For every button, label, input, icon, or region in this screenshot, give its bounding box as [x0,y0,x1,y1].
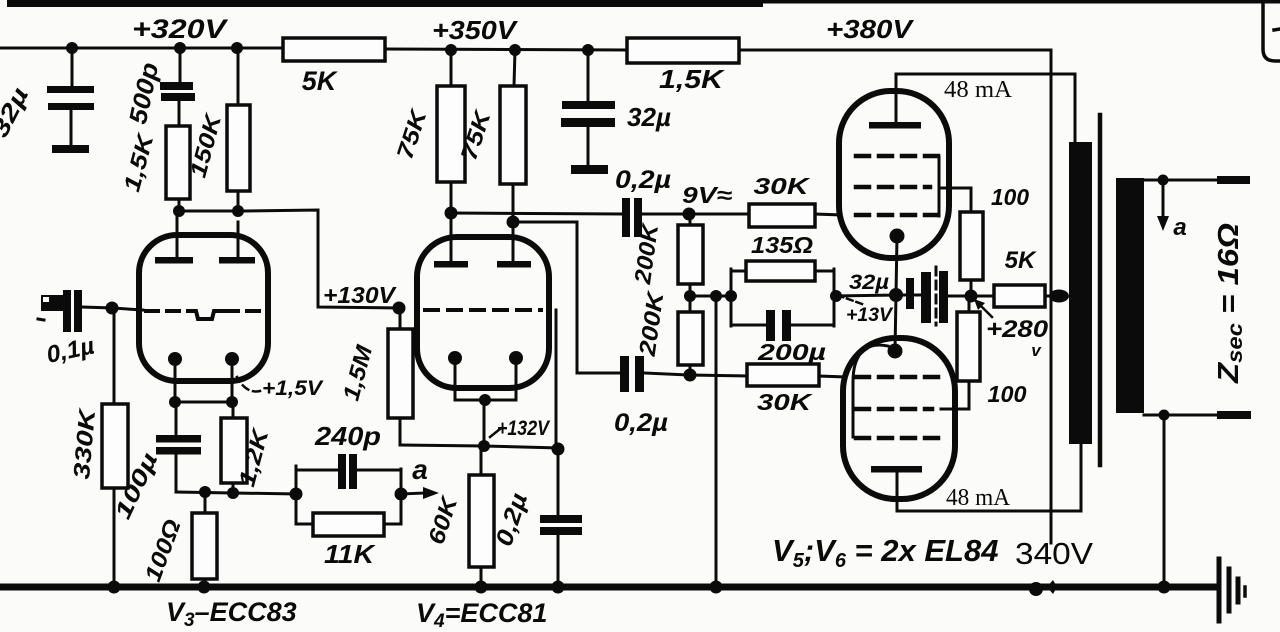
svg-text:100: 100 [988,381,1027,407]
transformer primary winding [1069,142,1092,444]
node dot mid c [725,290,737,302]
node dot cathode a [169,396,181,408]
wire V4 cathode bus [455,399,516,402]
svg-text:0,2µ: 0,2µ [615,166,671,194]
V5 cathode [890,229,905,296]
node dot V3 plate b [232,205,244,217]
wire V3 plate to V4 grid (+130V) [244,210,399,308]
svg-text:30K: 30K [754,173,811,199]
capacitor 0,2µ coupling top [622,198,689,237]
node dot rail 330K [108,581,121,594]
V3 grid (dashed) [146,311,263,319]
capacitor 0,2µ coupling bottom [620,356,690,392]
resistor 200K a [678,214,703,296]
wire V3 cathode bus [175,401,232,404]
svg-text:48 mA: 48 mA [944,77,1013,103]
svg-text:32µ: 32µ [627,102,671,132]
capacitor 500p [160,48,195,126]
wire V6 anode to transformer [897,444,1081,511]
wire secondary bottom [1144,414,1218,417]
V4 grid (dashed) [425,308,541,312]
ground rail [0,584,1218,591]
svg-text:11K: 11K [324,539,376,569]
svg-text:0,2µ: 0,2µ [614,409,668,437]
node dot centre tap [1049,290,1069,303]
V5 anode [869,74,921,129]
wire V4 grid b down [555,310,558,449]
stray mark left [38,319,44,320]
wire V4 cathode down [483,400,486,446]
ground symbol [1219,559,1245,621]
V3 anode b [219,222,255,264]
svg-text:5K: 5K [1005,247,1037,274]
svg-text:+1,5V: +1,5V [262,377,324,400]
svg-text:340V: 340V [1015,536,1093,571]
tube EL84 V6 envelope [843,338,955,499]
V6 anode [871,466,922,511]
transformer core [1098,115,1103,465]
node dot 9V [683,208,696,221]
tube V3 ECC83 envelope [139,235,268,381]
svg-text:+350V: +350V [432,15,519,45]
svg-text:1,5K: 1,5K [659,64,726,94]
node dot input/grid [106,302,119,315]
wire to point a with arrow [401,487,439,499]
V6 screen lead [941,381,969,409]
V5 grid tie line [938,157,941,216]
node dot EL84 cathodes [889,288,903,302]
svg-text:135Ω: 135Ω [751,232,813,258]
node dot cathode b [226,396,238,408]
capacitor 32µ (filter, far left) [47,48,94,153]
transformer secondary winding [1116,178,1144,413]
wire +132V node [400,445,558,448]
tube V4 ECC81 envelope [417,237,549,388]
wire B+ bus +320V section [0,47,284,50]
V6 cathode inner lead [853,345,888,437]
resistor 330K [102,308,128,584]
wire bias mid node [690,295,732,298]
tube EL84 V5 envelope [839,91,949,258]
border bar top [7,0,763,7]
leader +1,5V [237,377,260,391]
wire cathode network node [176,492,296,494]
node dot 100ohm top [199,486,211,498]
svg-text:200µ: 200µ [757,339,826,365]
V6 grid rows (dashed) [856,377,940,438]
node dot 150K [231,42,243,54]
node dot rail secondary [1158,581,1171,594]
resistor 1,2K [221,402,247,493]
resistor 60K [469,446,494,585]
resistor 1,5M [388,308,413,445]
svg-text:5K: 5K [302,66,339,96]
corner box top right [1263,2,1280,61]
svg-text:+280: +280 [986,316,1049,343]
node dot secondary bottom [1159,410,1170,421]
leader +132V [490,429,500,437]
svg-text:v: v [1031,341,1042,360]
node dot lower signal [684,369,697,382]
node dot V4 cathode [479,394,491,406]
resistor 75K b [500,50,526,222]
wire B+ bus +350V section [385,49,628,50]
node dot feedback left [290,488,303,501]
resistor 100 b (screen V6) [957,296,980,381]
V3 anode a [155,211,193,264]
wire V3 plate node [176,210,244,213]
svg-text:+132V: +132V [497,417,551,440]
V3 cathode b [225,352,239,402]
terminal stub top [1217,176,1250,184]
wire B+ bus +380V section [739,50,1051,543]
wire lower signal to 30K [690,375,748,376]
svg-text:240p: 240p [314,421,381,451]
V4 cathode b [509,351,523,400]
resistor 1,5K (V3 plate) [166,126,190,211]
wire secondary to ground [1163,415,1166,587]
capacitor 0,1µ [63,290,112,332]
V6 cathode [888,295,903,359]
svg-text:+130V: +130V [323,282,397,308]
node dot 0,2µ top [552,443,565,456]
svg-text:+380V: +380V [826,14,915,44]
V4 cathode a [448,351,462,400]
V5 screen lead [941,188,971,212]
node blob rail 340V [1047,580,1057,594]
node dot 500p [174,42,186,54]
node dot rail B+ [1029,582,1043,596]
resistor 75K a [437,50,465,213]
resistor 200K b [678,296,703,375]
svg-text:100: 100 [991,184,1029,210]
resistor 30K a [689,204,841,227]
capacitor 0,2µ (cathode V4) [540,449,582,585]
V3 cathode a [168,352,182,402]
svg-text:a: a [1173,214,1186,241]
node dot 75K a [445,44,457,56]
resistor 150K [227,48,250,211]
node dot rail 60K [475,581,488,594]
capacitor 100µ [156,402,201,492]
wire mid node to ground [715,296,718,585]
capacitor 32µ (screen bypass) [896,267,971,325]
svg-text:48 mA: 48 mA [946,485,1011,511]
svg-text:9V≈: 9V≈ [682,182,732,208]
resistor 100 a (screen V5) [960,212,983,296]
tick inside corner box [1274,29,1280,30]
resistor 5K [283,38,385,61]
wire tap a arrow [1157,180,1169,231]
node dot tap a [1158,175,1169,186]
wire secondary top [1144,179,1218,182]
node dot bias right [830,290,842,302]
node dot rail 0,2µ [552,581,565,594]
node dot rail bias [710,581,723,594]
svg-text:V5;V6 = 2x EL84: V5;V6 = 2x EL84 [772,533,998,572]
svg-text:30K: 30K [757,389,813,415]
V5 grid rows (dashed) [856,156,938,215]
svg-text:32µ: 32µ [849,271,889,294]
node dot feedback right [395,488,408,501]
wire grid V3 entry [112,308,143,310]
node dot V4 grid [393,302,406,315]
node dot screens [965,290,978,303]
node dot V4 plate b [507,216,520,229]
resistor 100Ω [192,492,217,586]
resistor 30K b [747,364,845,386]
node dot 75K b [509,44,521,56]
node dot 32u b [582,44,594,56]
wire V5 anode to transformer [896,74,1075,143]
leader +280V arrow [974,299,992,317]
resistor 1,5K (supply dropper) [627,38,739,63]
wire V4 plate a to coupling cap [451,213,622,214]
feedback network 240p/11K [296,454,401,536]
leader 32µ arrow [840,296,862,304]
node dot mid a [684,290,696,302]
node dot 1,2K bottom [227,487,239,499]
svg-text:a: a [412,454,428,485]
node dot rail 100ohm [198,581,211,594]
resistor 5K b (screen feed) [971,285,1052,307]
node dot 32u [66,42,78,54]
capacitor 32µ b [561,50,615,174]
svg-text:+320V: +320V [132,14,228,44]
bias network 135Ω / 200µ [731,261,897,341]
terminal stub bottom [1217,411,1251,419]
node dot 60K top [478,440,490,452]
node dot V4 plate a [445,207,458,220]
node dot V3 plate a [173,205,185,217]
V4 anode a [434,213,468,268]
svg-text:+13V: +13V [846,305,893,326]
wire V4 plate b to lower coupling cap [513,222,620,373]
input terminal [41,295,63,311]
stray mark right of transformer [1073,405,1079,411]
node dot mid b [710,290,722,302]
V4 anode b [497,222,531,268]
